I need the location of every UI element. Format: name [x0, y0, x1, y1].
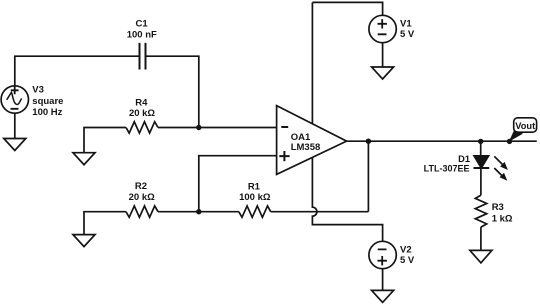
net flag Vout: [507, 118, 537, 144]
wire V3 top to C1: [15, 56, 139, 86]
wire feedback vertical to output: [367, 141, 369, 212]
resistor R4: [126, 122, 158, 133]
ground for R2: [73, 235, 95, 247]
wire ground to R2: [84, 212, 126, 235]
label V2 5 V: [400, 244, 415, 266]
wire C1 to minus node: [147, 56, 199, 127]
node output junction: [366, 139, 371, 144]
svg-text:LTL-307EE: LTL-307EE: [424, 164, 470, 174]
svg-text:V2: V2: [400, 244, 412, 255]
op-amp minus pin symbol: [281, 126, 288, 128]
ground for V3: [4, 139, 26, 151]
svg-text:D1: D1: [458, 154, 470, 164]
ground for V1: [372, 67, 394, 79]
resistor R1: [239, 206, 271, 217]
svg-text:5 V: 5 V: [400, 29, 415, 40]
svg-text:R2: R2: [135, 181, 147, 192]
svg-text:square: square: [32, 96, 63, 107]
wire LED to R3: [480, 168, 482, 195]
svg-text:100 kΩ: 100 kΩ: [239, 192, 271, 203]
wire op-amp V- vertical with hop over feedback wire: [312, 157, 382, 241]
node plus input junction: [196, 209, 201, 214]
ground for R3: [470, 250, 492, 263]
label OA1 LM358: [291, 132, 321, 153]
label R1 100 kOhm: [239, 181, 271, 203]
wire plus node to op-amp plus input: [199, 156, 277, 212]
label R3 1 kOhm: [492, 202, 513, 225]
svg-text:C1: C1: [136, 19, 149, 30]
voltage source V2: [369, 241, 396, 268]
op-amp U1 triangle: [277, 106, 347, 175]
node LED branch junction: [478, 139, 483, 144]
wire V3 bottom to ground: [14, 113, 16, 138]
wire output to LED D1: [480, 141, 482, 155]
label R4 20 kOhm: [129, 97, 155, 118]
label R2 20 kOhm: [129, 181, 155, 203]
svg-text:R4: R4: [135, 97, 148, 108]
svg-text:1 kΩ: 1 kΩ: [492, 214, 513, 225]
wire V1 to ground: [382, 43, 384, 67]
wire R2 to R1: [158, 211, 239, 213]
label V3 square 100 Hz: [32, 84, 63, 118]
ground for V2: [372, 290, 394, 302]
label C1 100 nF: [127, 19, 157, 41]
wire R4 to op-amp minus input: [158, 127, 277, 129]
svg-text:V1: V1: [400, 18, 412, 29]
svg-text:R1: R1: [248, 181, 261, 192]
svg-text:LM358: LM358: [291, 142, 321, 153]
wire V2 to ground: [382, 269, 384, 291]
wire op-amp output: [347, 140, 537, 142]
wire ground to R4: [84, 128, 126, 153]
label D1 LTL-307EE: [424, 154, 470, 174]
svg-text:100 Hz: 100 Hz: [32, 107, 62, 118]
wire R3 to ground: [480, 227, 482, 250]
LED emission arrows: [494, 156, 508, 181]
svg-text:20 kΩ: 20 kΩ: [129, 108, 155, 119]
node minus input junction: [196, 125, 201, 130]
label V1 5 V: [400, 18, 415, 40]
resistor R2: [126, 206, 158, 217]
voltage source V1: [369, 15, 396, 42]
wire R1 to feedback corner: [271, 211, 369, 213]
wire top rail from op-amp V+ to V1: [312, 2, 382, 15]
svg-text:100 nF: 100 nF: [127, 29, 157, 40]
LED D1: [474, 156, 490, 168]
resistor R3: [475, 195, 486, 227]
wire op-amp V+ vertical to top edge: [311, 2, 313, 123]
capacitor C1: [140, 43, 146, 70]
svg-text:20 kΩ: 20 kΩ: [129, 192, 155, 203]
svg-text:Vout: Vout: [515, 121, 535, 131]
svg-text:V3: V3: [32, 84, 44, 95]
op-amp plus pin symbol: [279, 151, 289, 161]
svg-text:R3: R3: [492, 202, 504, 213]
svg-text:5 V: 5 V: [400, 255, 415, 266]
voltage source V3 square: [1, 86, 28, 113]
ground for R4: [73, 153, 95, 165]
